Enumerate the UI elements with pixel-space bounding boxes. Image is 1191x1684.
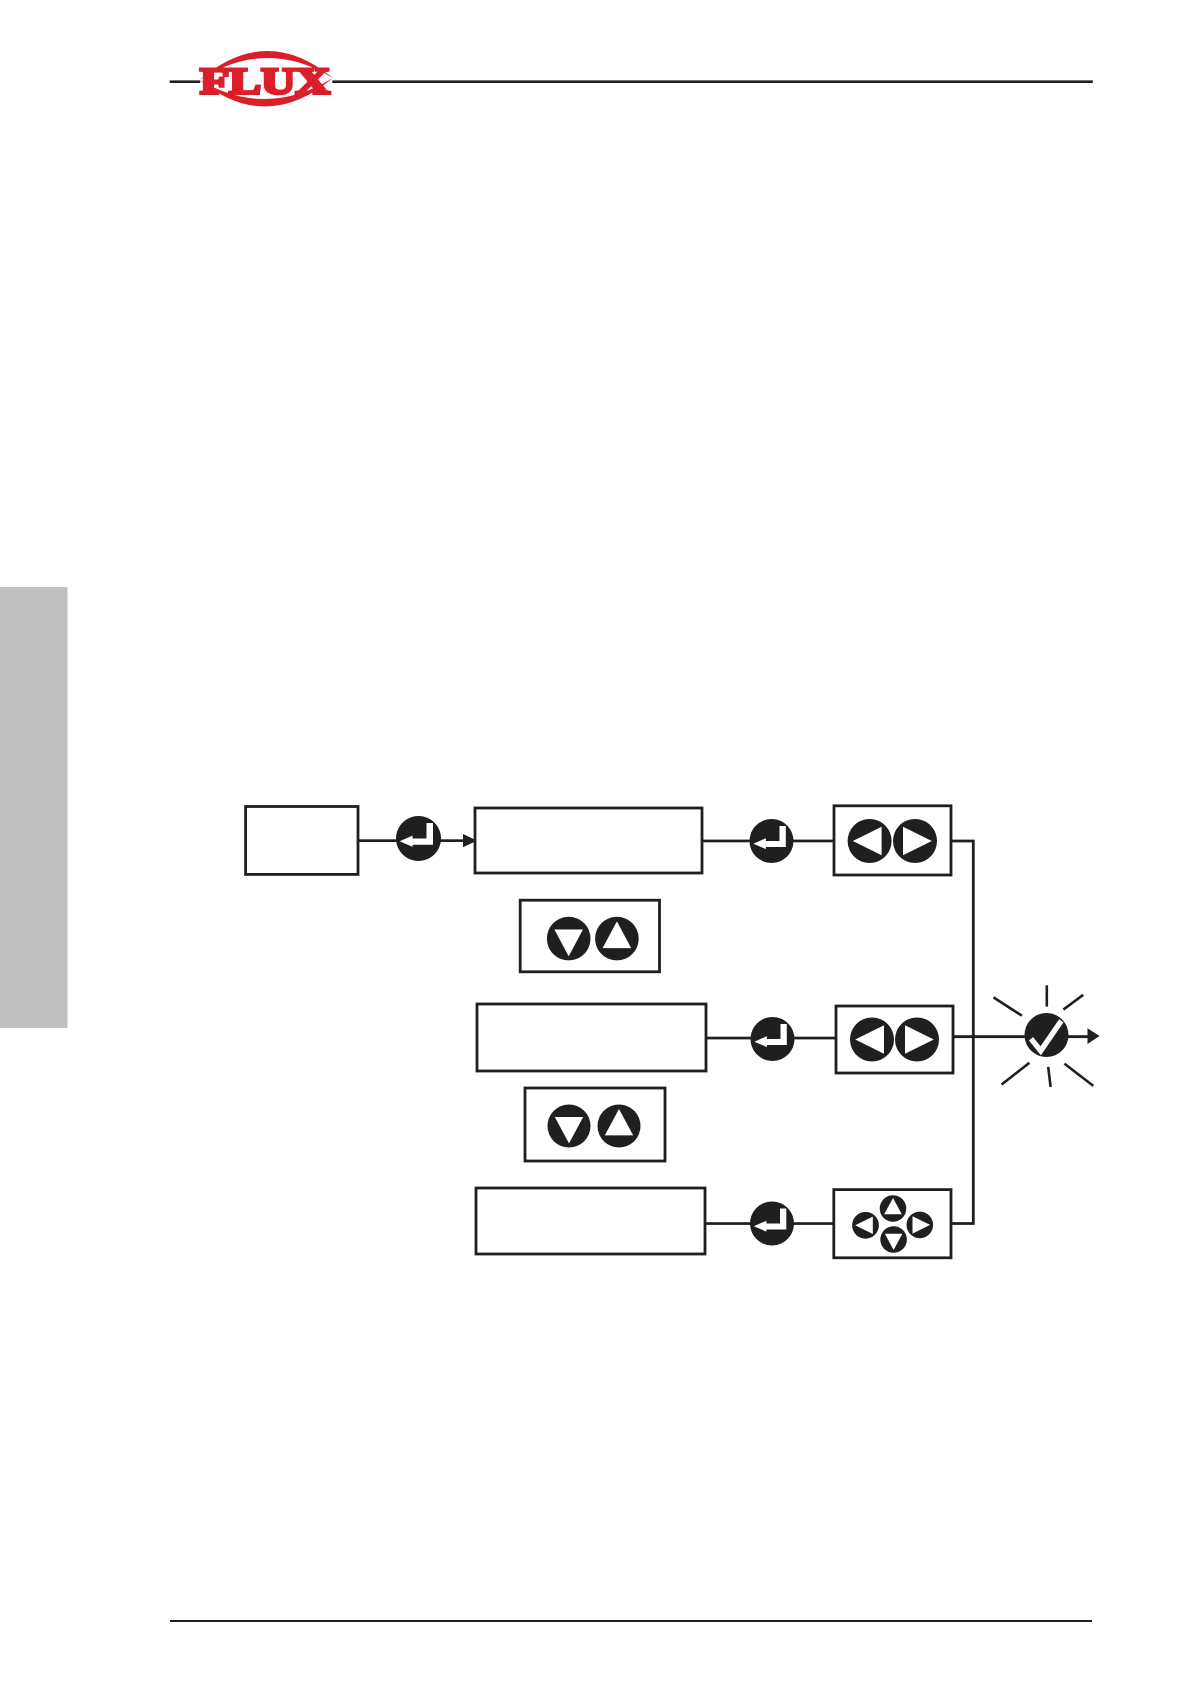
keybox LR1 — [834, 806, 951, 875]
nav key right — [907, 1212, 934, 1239]
wire box1 to enter1 — [357, 839, 397, 842]
halo ray top — [1046, 985, 1049, 1006]
wire box3 to enter3 — [705, 1037, 751, 1040]
nav key left — [852, 1212, 879, 1239]
halo ray upper-right — [1063, 995, 1083, 1010]
FLUX logo lens top arc — [200, 51, 334, 80]
enter key button 3 — [751, 1017, 795, 1061]
key up arrow DU2 — [598, 1105, 641, 1148]
box1 menu entry — [246, 807, 358, 875]
wire enter4 to nav keybox — [792, 1222, 835, 1225]
key left arrow LR1 — [848, 819, 892, 863]
enter key button 1 — [396, 816, 441, 861]
halo ray bottom — [1048, 1067, 1050, 1087]
key down arrow DU1 — [547, 917, 591, 961]
wire enter3 to keybox LR2 — [791, 1037, 838, 1040]
header rule left segment — [170, 80, 201, 83]
wire box2 to enter2 — [701, 840, 751, 843]
nav key down — [880, 1226, 907, 1253]
key right arrow LR1 — [893, 819, 937, 863]
keybox LR2 — [836, 1006, 953, 1073]
arrowhead into box2 — [463, 834, 477, 847]
FLUX logo lens bottom arc — [200, 78, 334, 107]
key left arrow LR2 — [850, 1018, 894, 1062]
wire enter1 to box2 with arrowhead — [440, 839, 465, 842]
OK confirm button with halo — [1025, 1013, 1069, 1057]
wire keybox LR2 to OK arrow — [952, 1035, 1090, 1038]
key up arrow DU1 — [595, 917, 639, 961]
wire right-side vertical connector — [951, 841, 973, 1224]
key down arrow DU2 — [548, 1105, 591, 1148]
footer rule — [170, 1620, 1092, 1622]
wire enter2 to keybox LR1 — [791, 840, 835, 843]
box4 parameter line 3 — [476, 1188, 705, 1254]
key right arrow LR2 — [895, 1018, 939, 1062]
box3 parameter line 2 — [477, 1004, 706, 1071]
halo ray lower-left — [1002, 1063, 1030, 1085]
keybox DU1 — [520, 900, 659, 972]
grey sidebar tab — [0, 587, 68, 1028]
arrowhead at OK exit — [1088, 1028, 1100, 1044]
halo ray upper-left — [994, 997, 1022, 1015]
enter key button 4 — [750, 1202, 794, 1246]
wire box4 to enter4 — [704, 1222, 751, 1225]
enter key button 2 — [750, 819, 794, 863]
halo ray lower-right — [1064, 1064, 1093, 1086]
svg-text:FLUX: FLUX — [200, 62, 330, 103]
nav keybox — [834, 1190, 951, 1258]
nav key up — [880, 1195, 907, 1222]
header rule right segment — [332, 80, 1093, 83]
box2 parameter line 1 — [475, 808, 702, 873]
keybox DU2 — [525, 1088, 665, 1161]
